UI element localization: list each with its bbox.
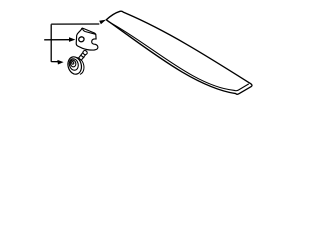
wire: vertical leader line [50, 25, 53, 62]
shank thread line [81, 55, 85, 58]
screw: head face [66, 55, 83, 75]
screw: spiral ring 3 [70, 60, 77, 68]
wire: middle leader to clip [44, 39, 70, 41]
clip top-face inner line [83, 29, 96, 35]
clip (u-nut) body [76, 28, 98, 50]
wire: bottom leader to screw [52, 61, 59, 63]
shank end cap [82, 50, 88, 56]
arrowhead to screw [57, 60, 63, 65]
spoiler blade body [106, 11, 252, 94]
screw: shank [79, 50, 88, 60]
clip hole [78, 36, 85, 43]
arrowhead to clip [69, 37, 75, 42]
arrowhead to spoiler [99, 20, 106, 25]
screw: center dot [71, 61, 74, 64]
screw: spiral ring 2 [68, 58, 80, 71]
screw: back rim (behind head) [76, 58, 84, 75]
spoiler inner front-edge line [108, 21, 249, 90]
wire: top leader to spoiler [51, 23, 99, 26]
